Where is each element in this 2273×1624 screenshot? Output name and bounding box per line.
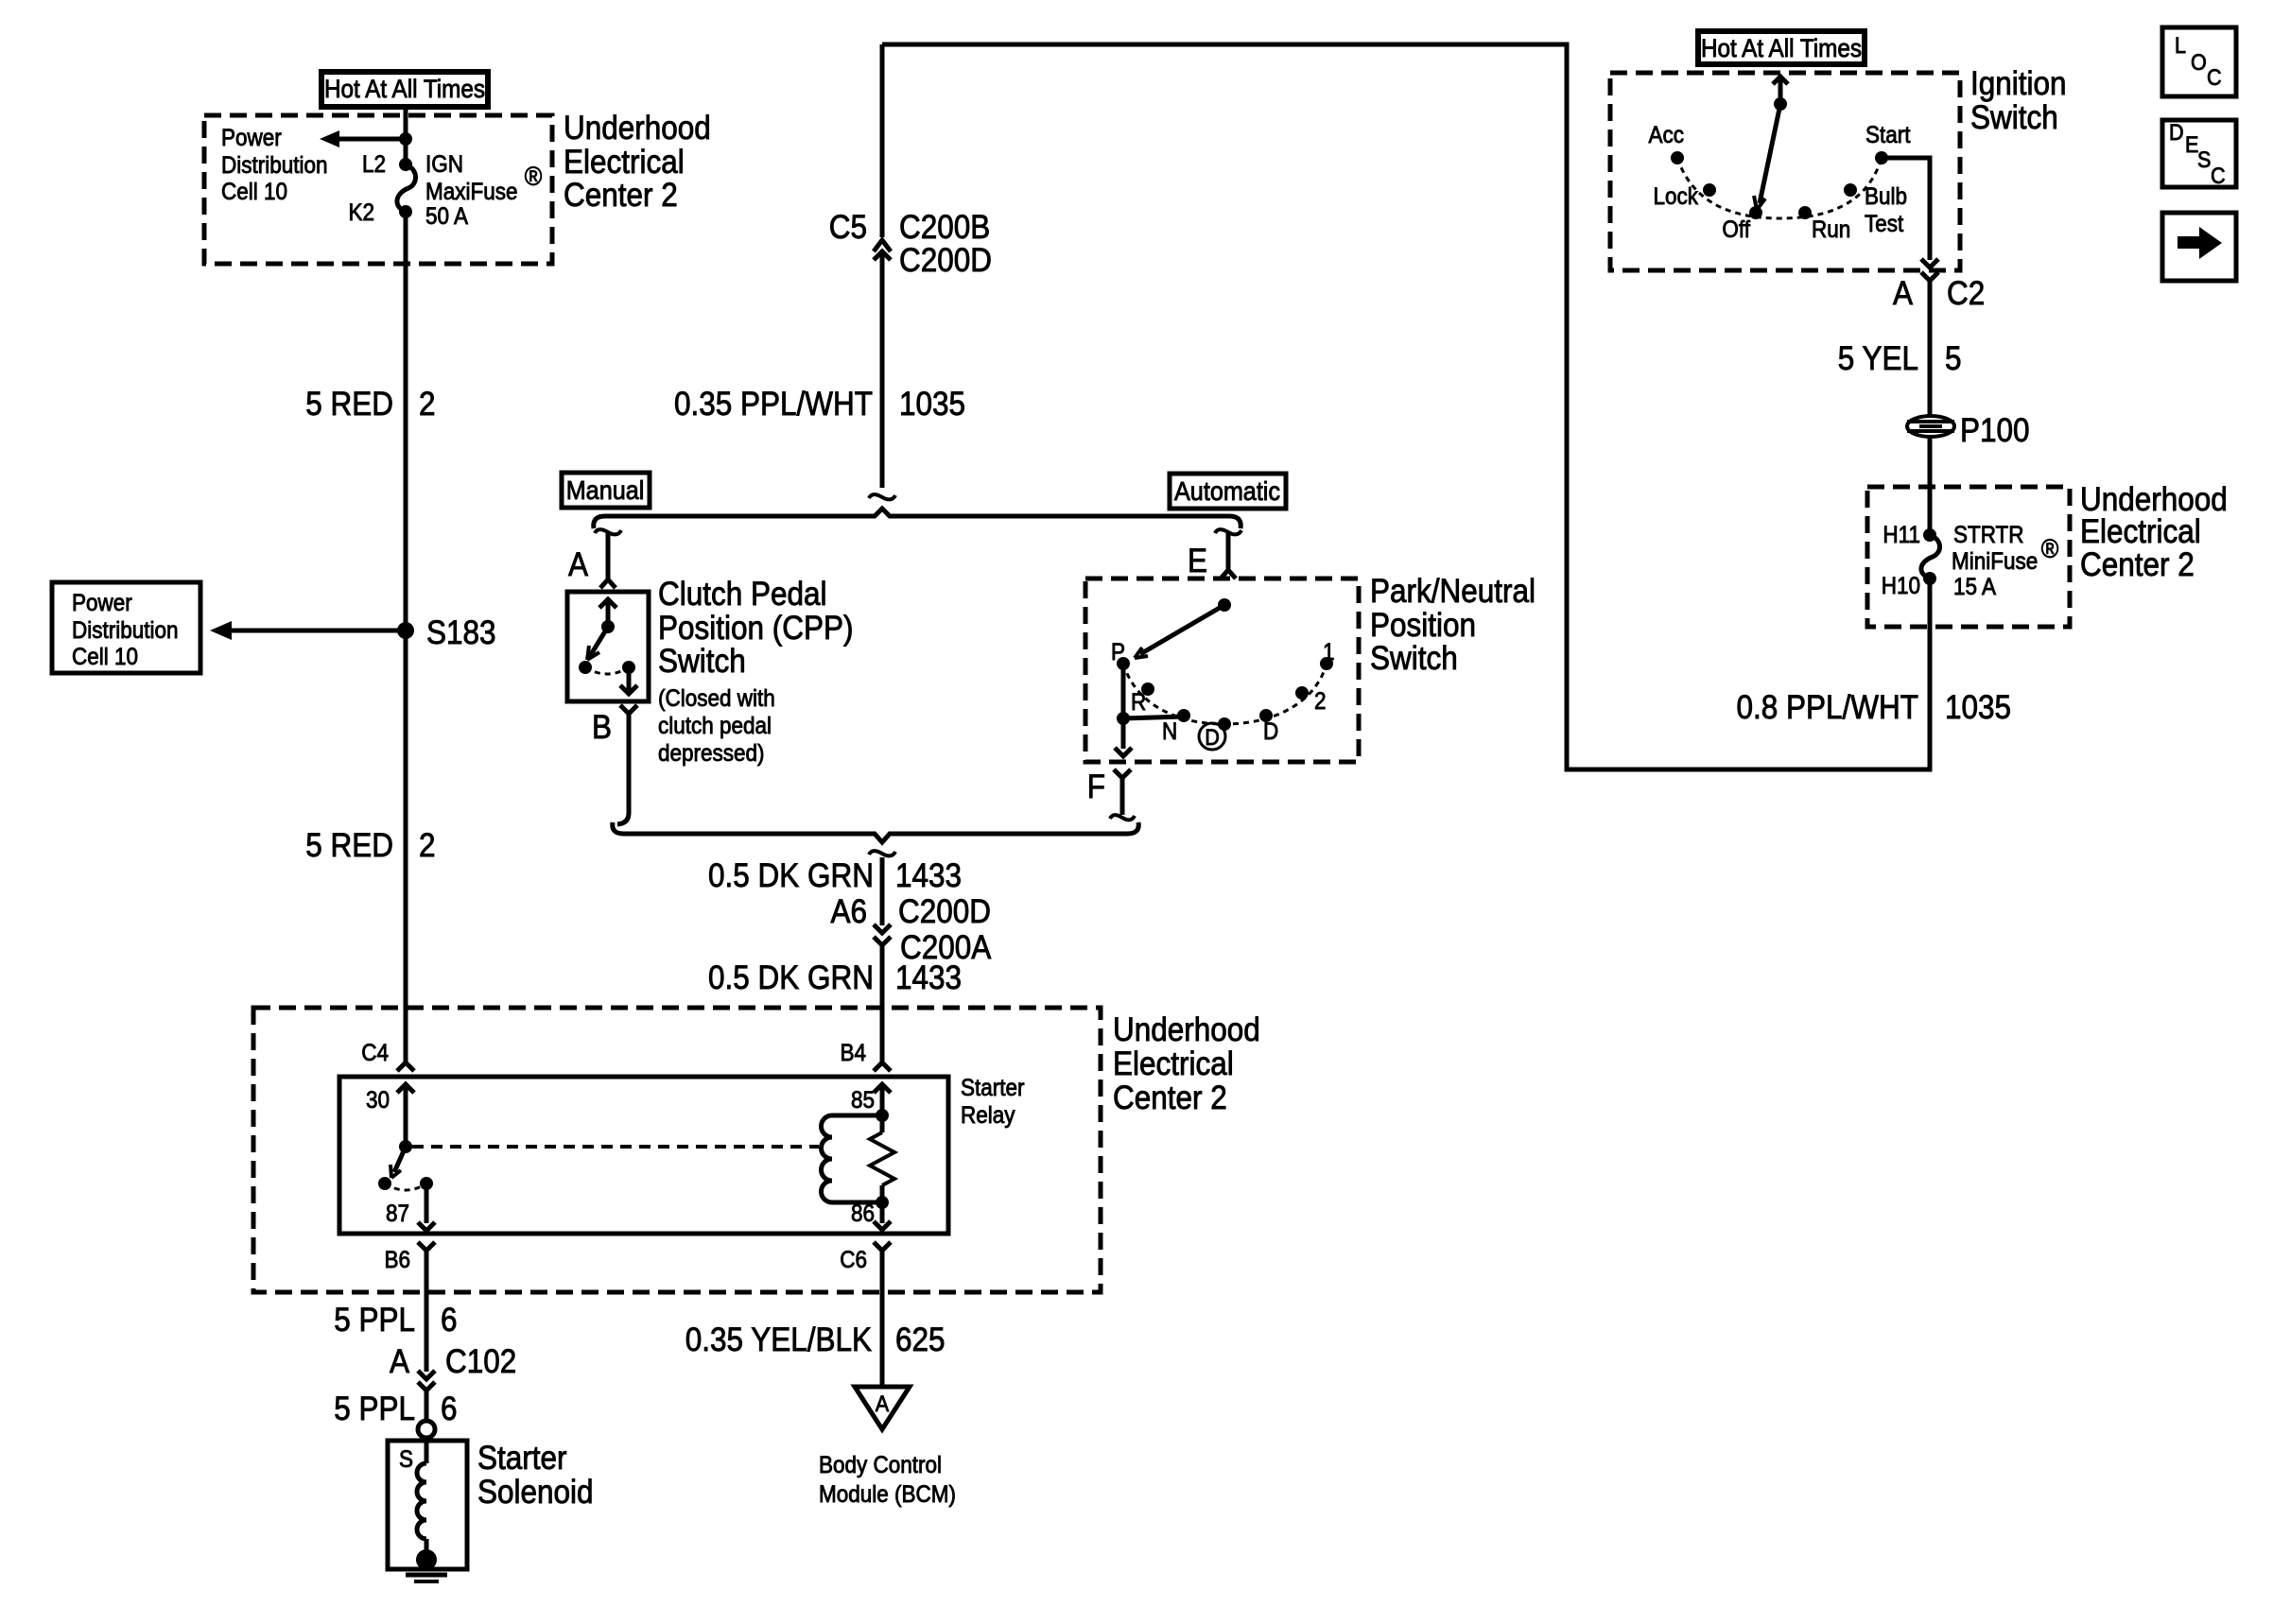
svg-text:clutch pedal: clutch pedal [658, 713, 772, 739]
svg-text:Center 2: Center 2 [564, 178, 678, 215]
svg-text:C: C [2211, 163, 2226, 188]
svg-text:Park/Neutral: Park/Neutral [1370, 574, 1536, 611]
svg-text:Relay: Relay [961, 1102, 1015, 1129]
svg-text:MiniFuse: MiniFuse [1952, 548, 2038, 575]
svg-text:H10: H10 [1882, 573, 1920, 599]
svg-text:E: E [1188, 544, 1207, 580]
svg-text:C200D: C200D [899, 243, 992, 280]
svg-text:IGN: IGN [425, 151, 463, 178]
svg-text:625: 625 [895, 1322, 946, 1359]
svg-text:STRTR: STRTR [1953, 522, 2024, 548]
svg-text:N: N [1162, 718, 1177, 745]
svg-text:87: 87 [386, 1201, 409, 1227]
svg-text:Hot At All Times: Hot At All Times [324, 76, 485, 103]
svg-text:2: 2 [1314, 688, 1327, 715]
svg-text:B6: B6 [384, 1247, 410, 1273]
svg-text:Electrical: Electrical [1113, 1046, 1234, 1083]
svg-text:Acc: Acc [1649, 122, 1685, 148]
svg-text:6: 6 [441, 1391, 458, 1428]
svg-text:Test: Test [1865, 211, 1904, 237]
svg-text:Hot At All Times: Hot At All Times [1701, 35, 1862, 62]
svg-text:85: 85 [851, 1087, 875, 1114]
svg-text:6: 6 [441, 1303, 458, 1339]
svg-text:1: 1 [1323, 639, 1335, 665]
svg-text:1035: 1035 [899, 387, 965, 423]
svg-text:O: O [2191, 49, 2207, 75]
svg-text:Electrical: Electrical [2080, 514, 2201, 551]
svg-text:L2: L2 [362, 151, 386, 178]
svg-text:5 YEL: 5 YEL [1838, 341, 1918, 378]
svg-text:5 RED: 5 RED [305, 387, 393, 423]
svg-text:A: A [1893, 276, 1914, 313]
svg-text:®: ® [2041, 534, 2059, 564]
svg-text:C6: C6 [840, 1247, 867, 1273]
svg-text:K2: K2 [348, 199, 374, 226]
svg-text:P100: P100 [1960, 413, 2030, 450]
svg-text:Cell 10: Cell 10 [72, 644, 138, 670]
svg-text:B: B [592, 710, 612, 747]
svg-text:F: F [1087, 769, 1105, 806]
svg-text:H11: H11 [1883, 522, 1920, 548]
svg-text:1433: 1433 [895, 858, 962, 895]
svg-text:5 PPL: 5 PPL [334, 1303, 415, 1339]
svg-text:15 A: 15 A [1953, 574, 1996, 600]
svg-text:Starter: Starter [961, 1075, 1025, 1101]
svg-text:C200B: C200B [899, 210, 990, 247]
svg-text:2: 2 [419, 387, 436, 423]
svg-text:Switch: Switch [1970, 100, 2058, 137]
svg-text:Solenoid: Solenoid [477, 1475, 594, 1512]
svg-text:0.8 PPL/WHT: 0.8 PPL/WHT [1737, 690, 1918, 727]
svg-text:Cell 10: Cell 10 [221, 179, 287, 205]
svg-text:L: L [2175, 32, 2186, 58]
svg-text:MaxiFuse: MaxiFuse [425, 179, 517, 205]
svg-text:Lock: Lock [1654, 183, 1699, 210]
svg-text:Bulb: Bulb [1865, 183, 1907, 210]
svg-text:C200D: C200D [898, 894, 991, 931]
svg-text:®: ® [525, 162, 543, 192]
svg-text:Position (CPP): Position (CPP) [658, 611, 853, 648]
svg-text:2: 2 [419, 828, 436, 865]
svg-text:Module (BCM): Module (BCM) [819, 1481, 956, 1508]
svg-text:C2: C2 [1947, 276, 1985, 313]
svg-text:Underhood: Underhood [564, 111, 711, 147]
svg-text:C4: C4 [361, 1040, 389, 1066]
svg-text:30: 30 [366, 1087, 390, 1114]
svg-text:Power: Power [221, 125, 282, 151]
svg-text:Switch: Switch [1370, 641, 1458, 678]
svg-text:Start: Start [1865, 122, 1911, 148]
svg-text:5 PPL: 5 PPL [334, 1391, 415, 1428]
svg-text:D: D [2169, 119, 2184, 145]
svg-text:Switch: Switch [658, 644, 746, 681]
svg-text:Center 2: Center 2 [2080, 547, 2195, 584]
svg-text:Clutch Pedal: Clutch Pedal [658, 577, 827, 613]
svg-text:Run: Run [1812, 216, 1850, 243]
svg-text:Distribution: Distribution [72, 617, 178, 644]
svg-text:Position: Position [1370, 608, 1476, 645]
svg-text:0.35 YEL/BLK: 0.35 YEL/BLK [685, 1322, 872, 1359]
svg-text:S: S [2197, 147, 2211, 172]
svg-text:C5: C5 [829, 210, 867, 247]
svg-text:(Closed with: (Closed with [658, 685, 775, 712]
svg-text:50 A: 50 A [425, 203, 468, 230]
svg-text:Distribution: Distribution [221, 152, 327, 179]
svg-text:depressed): depressed) [658, 740, 764, 767]
svg-text:A: A [390, 1344, 410, 1381]
svg-text:86: 86 [851, 1201, 875, 1227]
svg-text:Automatic: Automatic [1174, 476, 1280, 507]
svg-text:S183: S183 [426, 615, 496, 652]
svg-text:Ignition: Ignition [1970, 66, 2067, 103]
svg-text:1433: 1433 [895, 960, 962, 997]
svg-text:Manual: Manual [566, 475, 645, 506]
svg-text:0.5 DK GRN: 0.5 DK GRN [708, 960, 874, 997]
svg-text:Off: Off [1722, 216, 1750, 243]
svg-text:Underhood: Underhood [1113, 1012, 1260, 1049]
svg-text:0.5 DK GRN: 0.5 DK GRN [708, 858, 874, 895]
svg-text:Center 2: Center 2 [1113, 1080, 1227, 1117]
svg-text:P: P [1111, 639, 1125, 665]
svg-text:1035: 1035 [1945, 690, 2011, 727]
svg-text:R: R [1131, 689, 1146, 716]
svg-text:Electrical: Electrical [564, 145, 685, 181]
svg-text:S: S [399, 1446, 413, 1473]
svg-text:A: A [876, 1391, 890, 1416]
svg-text:Body Control: Body Control [819, 1452, 942, 1478]
svg-text:D: D [1205, 724, 1220, 750]
svg-text:5 RED: 5 RED [305, 828, 393, 865]
svg-text:D: D [1263, 718, 1278, 745]
svg-text:0.35 PPL/WHT: 0.35 PPL/WHT [674, 387, 873, 423]
svg-text:Power: Power [72, 590, 132, 616]
svg-text:A6: A6 [830, 894, 867, 931]
svg-text:A: A [568, 547, 589, 584]
svg-text:5: 5 [1945, 341, 1962, 378]
svg-text:C: C [2207, 64, 2222, 90]
svg-text:B4: B4 [840, 1040, 866, 1066]
svg-text:C102: C102 [445, 1344, 516, 1381]
svg-text:Starter: Starter [477, 1441, 567, 1477]
